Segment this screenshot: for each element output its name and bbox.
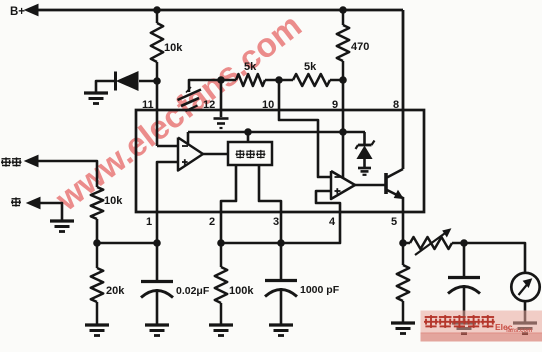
ground R7 (209, 325, 233, 336)
node 5k / pin 12 (217, 76, 225, 84)
wire pin 12 stub (220, 80, 223, 117)
capacitor C1 curved plate (141, 291, 173, 298)
IC box U1 (136, 110, 424, 212)
capacitor C2 1000pF top plate (265, 279, 297, 282)
svg-text:fans.com: fans.com (506, 328, 532, 334)
diode D1 (117, 72, 138, 90)
resistor R2 5k lead left (221, 79, 236, 82)
node bus / pin 9 / zener (339, 128, 347, 136)
svg-text:4: 4 (329, 216, 336, 228)
node rheostat / C3 (460, 239, 468, 247)
capacitor C1 0.02uF top plate (141, 280, 173, 283)
svg-text:0.02μF: 0.02μF (176, 285, 210, 297)
wire zener to ground (363, 158, 366, 168)
wire to meter (464, 243, 525, 274)
svg-text:B+: B+ (10, 6, 25, 18)
zener diode Z1 cathode bar (356, 141, 375, 150)
resistor R7 100k (215, 267, 227, 303)
resistor R3 5k lead right (330, 79, 343, 82)
wire op-amp U1 output (203, 153, 228, 156)
wire C3 bottom lead (463, 285, 466, 323)
arrow 地 (27, 197, 40, 208)
resistor R3 5k (293, 74, 330, 86)
wire 接点 (36, 161, 97, 187)
wire pin 9 vertical (342, 80, 345, 132)
wire pin 11 to op-amp U1 inverting input (157, 145, 178, 148)
wire R5 to node (96, 219, 99, 243)
resistor R4 470 lead top (342, 10, 345, 25)
transistor Q1 emitter (386, 190, 403, 199)
capacitor C2 curved plate (265, 290, 297, 297)
label 接点 contact (1, 157, 11, 166)
op-amp U2 plus sign (335, 188, 341, 194)
wire op-amp U2 output to Q1 base (355, 184, 386, 187)
wire node12 to slant ground (189, 80, 219, 92)
svg-text:1000 pF: 1000 pF (300, 284, 340, 296)
resistor R2 5k lead right (265, 79, 279, 82)
wire R6 to ground (96, 302, 99, 325)
ground C3 (452, 323, 476, 334)
resistor R5 10k (91, 187, 103, 219)
wire bus drop to op-amp U1 top (187, 132, 190, 145)
wire internal supply bus (188, 131, 365, 134)
rheostat R8 lead right (452, 242, 464, 245)
node R5 / 20k (93, 239, 101, 247)
node pin5 / rheostat (399, 239, 407, 247)
ground C2 (269, 325, 293, 336)
charge pump box (228, 142, 272, 165)
svg-text:1: 1 (146, 216, 152, 228)
diode D1 cathode bar (114, 72, 117, 91)
wire pin 9 to op-amp U2 supply (342, 132, 345, 178)
resistor R2 5k (236, 74, 265, 86)
wire charge pump leg right (259, 165, 281, 243)
svg-text:5k: 5k (244, 61, 257, 73)
wire R9 to ground (402, 301, 405, 323)
watermark www.elecfans.com (49, 7, 309, 219)
wire C1 bottom lead (156, 289, 159, 325)
wire node1 bus (97, 242, 157, 245)
ground meter (513, 323, 537, 334)
op-amp U1 minus sign (182, 145, 188, 147)
svg-text:20k: 20k (106, 285, 125, 297)
node pin2 / R7 (217, 239, 225, 247)
node pin1 / C1 (153, 239, 161, 247)
zener diode Z1 (357, 147, 371, 159)
ground C1 (145, 325, 169, 336)
svg-text:2: 2 (209, 216, 215, 228)
wire C1 top lead (156, 243, 159, 281)
capacitor C3 curved plate (448, 287, 480, 294)
node 5k junction pin 10 (275, 76, 283, 84)
op-amp U2 (331, 171, 355, 199)
label 充电泵 charge pump (236, 150, 245, 159)
node R1 / D1 / pin 11 (153, 77, 161, 85)
capacitor C3 top plate (448, 276, 480, 279)
wire B+ top rail (36, 9, 403, 12)
node bus / charge pump (244, 128, 252, 136)
svg-text:5k: 5k (304, 61, 317, 73)
resistor R4 470 lead bottom (342, 61, 345, 80)
wire 地 to ground (38, 203, 62, 220)
node R4 / 5k / pin 9 (339, 76, 347, 84)
ground pin 12 internal (214, 119, 229, 129)
arrow 接点 (25, 155, 38, 166)
resistor R1 10k (151, 23, 163, 62)
wire pin 11 vertical (156, 81, 159, 146)
wire C2 top lead (280, 243, 283, 280)
resistor R6 20k lead (96, 243, 99, 268)
resistor R4 470 (337, 25, 349, 61)
svg-text:470: 470 (351, 41, 369, 53)
arrow B+ (25, 4, 38, 15)
ground 地 (50, 221, 74, 232)
node top-rail / R1 (153, 6, 161, 14)
resistor R3 5k lead left (279, 79, 293, 82)
wire meter to ground (524, 301, 527, 323)
transistor Q1 base bar (384, 173, 388, 194)
resistor R9 lead top (402, 243, 405, 265)
resistor R1 10k lead top (156, 10, 159, 23)
wire bus stub to charge pump box (247, 132, 250, 143)
rheostat R8 (410, 237, 452, 249)
wire pin 1 from op-amp U1 plus input (157, 162, 178, 243)
svg-text:10k: 10k (104, 195, 123, 207)
wire pin 4 from op-amp U2 plus input (281, 191, 340, 243)
meter M1 (511, 273, 539, 301)
ground R6 (85, 325, 109, 336)
wire C3 top lead (463, 243, 466, 277)
wire top rail right corner to pin 8 (402, 10, 405, 169)
node pin3 / C2 (277, 239, 285, 247)
wire diode anode lead (139, 80, 157, 83)
op-amp U1 (178, 138, 203, 171)
wire C2 bottom lead (280, 288, 283, 325)
meter M1 needle (519, 279, 532, 295)
watermark 电子发烧友 banner (421, 311, 542, 342)
resistor R6 20k (91, 268, 103, 302)
op-amp U1 plus sign (182, 159, 188, 165)
label 地 ground (11, 197, 21, 206)
svg-text:100k: 100k (229, 285, 254, 297)
svg-text:3: 3 (273, 216, 279, 228)
rheostat R8 arrow (415, 229, 451, 255)
transistor Q1 collector (386, 169, 403, 178)
wire R7 to ground (220, 303, 223, 325)
wire pin2-pin3 bus (221, 242, 281, 245)
ground R9 (391, 323, 415, 334)
ground zener (358, 168, 371, 175)
ground diode D1 (84, 93, 108, 104)
wire diode cathode to ground (96, 81, 115, 92)
resistor R7 100k lead (220, 243, 223, 267)
wire zener drop (363, 132, 366, 145)
rheostat R8 lead left (403, 242, 410, 245)
ground slanted near pin 12 (178, 87, 202, 111)
op-amp U2 minus sign (335, 176, 341, 178)
resistor R9 (397, 265, 409, 301)
wire pin 10 path (279, 80, 331, 177)
node top-rail / R4 (339, 6, 347, 14)
wire charge pump leg left (221, 165, 236, 243)
wire emitter to pin 5 (402, 197, 405, 243)
resistor R1 10k lead bottom (156, 62, 159, 81)
svg-text:10k: 10k (164, 42, 183, 54)
svg-text:5: 5 (391, 216, 397, 228)
